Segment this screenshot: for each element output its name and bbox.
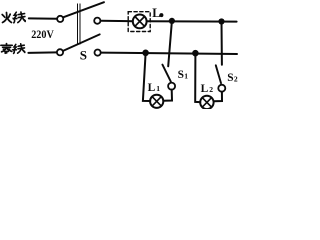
switch S upper terminal right — [94, 18, 100, 24]
label S2 — [227, 72, 238, 84]
label L1 — [148, 82, 161, 94]
switch S2 blade — [216, 65, 221, 83]
node: junction dot neutral/branch2 — [192, 50, 199, 57]
wire: branch2 bottom loop — [214, 92, 222, 102]
switch S2 terminal — [218, 85, 225, 92]
switch S1 blade — [162, 65, 170, 82]
wire: branch1 bottom left + rise to neutral — [143, 53, 150, 101]
lamp L1 — [150, 95, 163, 108]
wire: neutral wire left segment — [28, 51, 56, 54]
lamp L0 — [133, 15, 147, 29]
switch S lower terminal right — [95, 50, 101, 56]
svg-text:1: 1 — [156, 84, 160, 93]
switch S upper blade — [64, 2, 105, 17]
label 火线 second char 线 — [14, 12, 26, 23]
dashed box around L0 — [128, 12, 150, 32]
wire: live wire from switch to lamp L0 — [101, 20, 133, 22]
svg-text:S: S — [80, 48, 87, 63]
label 220V — [31, 28, 54, 41]
svg-text:S: S — [178, 69, 184, 81]
label S — [80, 48, 87, 63]
node: junction dot live/branch2 — [218, 18, 224, 24]
svg-text:2: 2 — [234, 74, 238, 83]
wire: neutral wire from switch to right edge — [101, 53, 237, 54]
switch S lower terminal left — [57, 49, 63, 55]
label 零线 (neutral wire) — [1, 44, 12, 54]
node: junction dot live/branch1 — [169, 18, 175, 24]
wire: branch1 drop from live wire — [168, 21, 172, 66]
svg-text:1: 1 — [184, 72, 188, 81]
switch S linkage double line — [77, 4, 80, 44]
lamp L2 — [200, 96, 213, 109]
wire: branch2 drop from live wire — [221, 22, 223, 65]
label 火线 (live wire) — [2, 13, 11, 23]
svg-text:L: L — [148, 82, 156, 94]
label S1 — [178, 69, 189, 81]
wire: live wire from lamp L0 to right edge — [147, 20, 237, 22]
svg-text:L: L — [201, 83, 209, 95]
switch S upper terminal left — [57, 16, 63, 22]
label L2 — [201, 83, 214, 95]
svg-text:S: S — [227, 72, 233, 84]
node: junction dot neutral/branch1 — [142, 50, 149, 57]
svg-text:2: 2 — [209, 85, 213, 94]
svg-text:220V: 220V — [31, 28, 54, 41]
wire: branch1 bottom loop — [163, 90, 172, 101]
label L0 — [152, 6, 163, 20]
switch S lower blade — [63, 34, 99, 50]
wire: live wire left segment — [29, 17, 57, 19]
wire: branch2 bottom left + rise to neutral — [195, 53, 200, 102]
switch S1 terminal — [168, 83, 175, 90]
svg-text:L: L — [152, 6, 160, 20]
